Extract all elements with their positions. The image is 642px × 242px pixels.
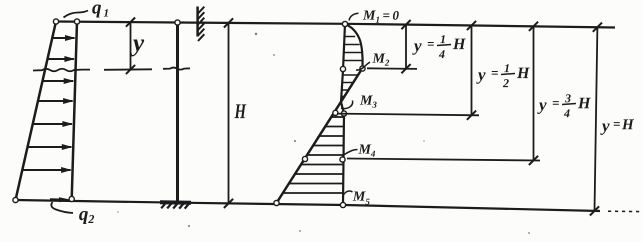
- svg-text:=: =: [613, 116, 620, 131]
- svg-text:M1 = 0: M1 = 0: [362, 8, 400, 25]
- svg-text:=: =: [552, 95, 559, 110]
- svg-text:H: H: [621, 117, 635, 133]
- svg-text:q2: q2: [79, 204, 95, 226]
- svg-text:1: 1: [504, 61, 510, 75]
- svg-text:q1: q1: [92, 0, 109, 20]
- svg-text:H: H: [234, 99, 247, 123]
- svg-text:y: y: [130, 30, 145, 57]
- svg-text:4: 4: [438, 47, 445, 61]
- svg-text:=: =: [427, 36, 434, 51]
- svg-text:=: =: [491, 65, 498, 80]
- svg-text:H: H: [452, 36, 466, 53]
- svg-text:H: H: [577, 95, 591, 112]
- svg-text:M2: M2: [371, 52, 389, 68]
- svg-text:H: H: [516, 65, 530, 82]
- svg-text:y: y: [412, 36, 422, 55]
- svg-text:3: 3: [564, 91, 571, 105]
- svg-text:M5: M5: [352, 190, 370, 207]
- svg-text:y: y: [600, 116, 610, 135]
- svg-text:4: 4: [563, 106, 570, 120]
- svg-text:1: 1: [440, 32, 446, 46]
- svg-text:2: 2: [502, 76, 509, 90]
- svg-text:M4: M4: [357, 143, 375, 159]
- svg-text:y: y: [476, 65, 486, 84]
- svg-text:M3: M3: [359, 94, 377, 110]
- svg-text:y: y: [537, 95, 547, 114]
